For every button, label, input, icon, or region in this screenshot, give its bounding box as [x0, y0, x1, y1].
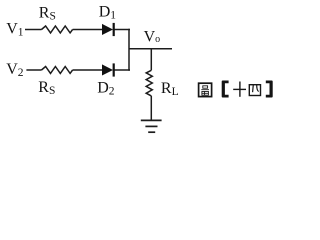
- resistor RL zigzag (vertical): [146, 70, 152, 96]
- diode D1: [102, 23, 114, 36]
- wire RS2 to D2: [73, 69, 102, 71]
- wire V1 to RS: [25, 29, 42, 31]
- caption bracket 【: [222, 81, 229, 98]
- wire V2 to RS2: [26, 69, 41, 71]
- svg-text:D1: D1: [99, 4, 117, 22]
- caption glyph 十: [233, 82, 246, 97]
- caption bracket 】: [266, 81, 273, 98]
- svg-text:RS: RS: [38, 79, 55, 97]
- diode D2: [102, 63, 114, 76]
- wire D2 to corner: [114, 69, 130, 71]
- wire output node Vo branch: [129, 48, 172, 50]
- caption glyph 圖: [199, 83, 212, 96]
- wire Vo node down to RL: [150, 49, 152, 71]
- svg-text:V2: V2: [6, 61, 24, 79]
- resistor RS2 zigzag: [42, 67, 73, 74]
- wire RL to ground: [150, 96, 152, 120]
- svg-text:V1: V1: [6, 21, 24, 39]
- caption glyph 四: [249, 85, 260, 96]
- resistor RS1 zigzag: [42, 26, 73, 33]
- vertical bus wire joining D1 and D2 outputs: [128, 29, 130, 71]
- ground: [141, 120, 162, 132]
- svg-text:RL: RL: [161, 80, 179, 98]
- svg-text:D2: D2: [97, 80, 115, 98]
- svg-text:RS: RS: [39, 4, 56, 22]
- wire D1 to corner: [114, 29, 130, 31]
- svg-text:Vo: Vo: [144, 29, 161, 46]
- wire RS1 to D1: [73, 29, 102, 31]
